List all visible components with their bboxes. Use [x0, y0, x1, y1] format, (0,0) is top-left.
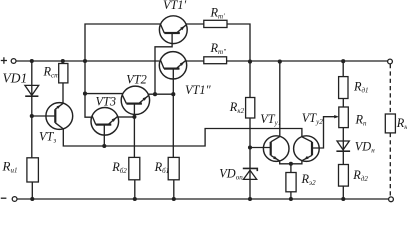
transistor VT2: [121, 86, 149, 114]
resistor Rst: [59, 64, 68, 83]
resistor Rb1: [168, 157, 179, 179]
wire: VTy1 collector to rail: [279, 62, 281, 137]
transistor VT1'': [159, 52, 186, 79]
wire: dashed to load Rn (top): [389, 64, 391, 114]
wire: output rail: [227, 60, 388, 62]
wire: VTy1 base: [250, 147, 271, 149]
wire: VT2 collector: [85, 93, 123, 95]
node: VTy1 base / VDop: [248, 145, 252, 149]
node: rail/Rk2: [248, 60, 252, 64]
wire: Rt' to output rail: [227, 24, 250, 62]
transistor VT3: [91, 108, 119, 136]
resistor Ri1: [27, 158, 39, 182]
resistor Rn (load): [385, 114, 395, 133]
wire: Rb2 to bottom rail: [134, 180, 136, 199]
plus input terminal: [1, 57, 16, 63]
wire: VT3 base down: [103, 135, 105, 146]
node: bottom rail/VDop: [248, 197, 252, 201]
resistor Rp (potentiometer): [339, 107, 349, 128]
minus input terminal: [1, 197, 17, 202]
resistor Re2: [286, 173, 296, 192]
wire: VT2 emitter node to VT1doubleprime base: [148, 93, 174, 95]
wire: VD1 to Ri1: [31, 96, 33, 158]
wire: rail to Rk2: [249, 62, 251, 98]
node: bottom rail/Rd2: [341, 197, 345, 201]
svg-text:VT1′: VT1′: [163, 0, 186, 12]
node: VT3 emitter / VT2 base: [132, 115, 136, 119]
node: VT1doubleprime base: [171, 92, 175, 96]
svg-text:VT2: VT2: [126, 72, 147, 86]
svg-text:VT1″: VT1″: [185, 83, 211, 97]
node: bottom rail/Rb1: [172, 197, 176, 201]
node: bottom rail/Rb2: [133, 197, 137, 201]
output terminal bottom right: [389, 197, 394, 202]
wire: VT3 emitter to VT2 base column: [119, 116, 135, 118]
resistor Rk2: [246, 98, 255, 119]
diode VDn: [336, 141, 350, 151]
wire: rail to Rst: [62, 61, 64, 64]
wire: bottom (minus) rail: [17, 198, 389, 200]
wire: VDn to Rd2: [342, 151, 344, 164]
node: VT1prime base: [153, 92, 157, 96]
wire: emitter node to Re2: [290, 164, 292, 173]
wire: VTz collector to VT3 base rail and VTy2 collector: [63, 129, 302, 147]
wire: VT2 base down to Rb2: [133, 115, 135, 158]
node: VT2 collector: [83, 92, 87, 96]
svg-text:VD1: VD1: [3, 71, 28, 86]
node: VT3 base: [102, 144, 106, 148]
resistor Rt'' (horizontal): [204, 57, 227, 64]
node: rail/VD1: [30, 59, 34, 63]
transistor VTy1: [263, 136, 289, 162]
node: rail/Rd1: [341, 59, 345, 63]
wire: rail to Rd1: [342, 61, 344, 76]
wire: VDop to bottom rail: [249, 179, 251, 199]
transistor VTy2: [294, 136, 320, 162]
wire: + rail to VT1doubleprime collector: [16, 60, 159, 62]
resistor Rd1: [339, 77, 348, 99]
wire: VT1prime collector down-feed and VT2/VT3 collector column: [85, 24, 161, 117]
wire: Rst to VTz emitter: [62, 83, 64, 104]
node: bottom rail/Ri1: [30, 197, 34, 201]
node: rail/Rst: [61, 59, 65, 63]
wire: VTy2 base to Rp wiper: [312, 117, 335, 148]
wire: VTy emitters join: [280, 161, 302, 164]
resistor Rt' (horizontal): [204, 20, 227, 27]
transistor VTz (protection): [46, 103, 73, 130]
wire: VT1prime emitter to Rt': [186, 23, 204, 25]
node: VTy emitters: [289, 162, 293, 166]
wire: Ri1 to bottom rail: [31, 182, 33, 199]
wire: Rp to VDn: [342, 128, 344, 152]
node: rail/VTy1 collector: [278, 60, 282, 64]
output terminal top right: [388, 59, 393, 64]
wire: VTz base: [32, 115, 56, 117]
node: VD1 / VTz base: [30, 114, 34, 118]
wire: Rd2 to bottom rail: [342, 186, 344, 199]
diode VD1: [25, 85, 39, 96]
wire: Rk2 to VDop: [249, 118, 251, 179]
wire: rail to VD1: [31, 61, 33, 96]
resistor Rb2: [129, 157, 140, 179]
svg-text:VT3: VT3: [96, 95, 117, 109]
node: rail/VT1prime feed: [83, 59, 87, 63]
transistor VT1': [159, 16, 187, 44]
zener diode VDop: [243, 168, 257, 179]
wire: VT1doubleprime base down to Rb1: [172, 79, 174, 157]
wire: Rd1 to Rp: [342, 99, 344, 108]
wire: Rb1 to bottom rail: [173, 180, 175, 199]
wire: dashed to load Rn (bottom): [389, 133, 391, 197]
resistor Rd2: [339, 165, 349, 187]
potentiometer wiper arrow: [334, 115, 339, 118]
wire: VT1doubleprime emitter to Rt'': [186, 60, 204, 62]
node: bottom rail/Re2: [289, 197, 293, 201]
wire: VT1prime base jog down: [155, 44, 172, 95]
wire: Re2 to bottom rail: [290, 192, 292, 199]
